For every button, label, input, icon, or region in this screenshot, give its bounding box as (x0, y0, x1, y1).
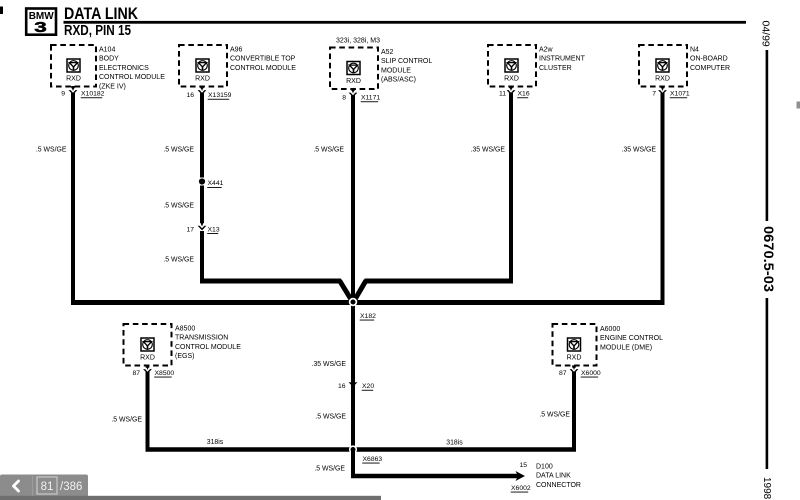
svg-text:A96: A96 (230, 47, 243, 54)
svg-text:.5 WS/GE: .5 WS/GE (313, 146, 344, 153)
sidebar line lower (766, 298, 769, 469)
wire from A104 down (71, 93, 75, 305)
svg-text:81: 81 (41, 481, 54, 493)
connector arrow X10182 (69, 86, 78, 94)
svg-text:TRANSMISSION: TRANSMISSION (175, 335, 228, 342)
module box N4 (639, 45, 687, 87)
svg-text:DATA LINK: DATA LINK (64, 5, 138, 23)
sidebar line upper (766, 50, 769, 221)
svg-text:CONNECTOR: CONNECTOR (536, 482, 581, 489)
wire from A8500 down (146, 372, 150, 452)
svg-text:A6000: A6000 (600, 326, 620, 333)
wire from A52 down through X182 to X6863 (351, 96, 355, 450)
module box A2w (488, 45, 536, 87)
svg-text:BODY: BODY (99, 56, 119, 63)
svg-text:RXD: RXD (140, 355, 155, 362)
svg-text:MODULE: MODULE (381, 67, 411, 74)
svg-text:RXD: RXD (66, 76, 81, 83)
svg-text:X6863: X6863 (363, 456, 383, 463)
svg-text:A2w: A2w (539, 47, 554, 54)
svg-text:15: 15 (519, 462, 527, 469)
wire X13 down to upper bus (200, 231, 204, 284)
bottom wire to D100 (351, 474, 518, 479)
svg-text:04/99: 04/99 (759, 21, 771, 47)
connector arrow X13159 (198, 86, 207, 94)
svg-text:COMPUTER: COMPUTER (690, 65, 730, 72)
module box A96 (179, 45, 227, 87)
svg-text:.5 WS/GE: .5 WS/GE (111, 416, 142, 423)
svg-text:(EGS): (EGS) (175, 353, 194, 360)
wire from A96 down to X441 (200, 93, 204, 178)
svg-text:(ZKE IV): (ZKE IV) (99, 83, 126, 90)
svg-text:X13: X13 (208, 226, 220, 233)
icon A52 (347, 62, 360, 75)
svg-text:MODULE (DME): MODULE (DME) (600, 344, 652, 351)
sidebar gray square (797, 102, 800, 109)
wire from A2w down to upper bus (509, 93, 513, 284)
svg-text:7: 7 (652, 90, 656, 97)
upper bus right segment (diagonal to A2w) (365, 279, 514, 284)
module box A8500 (124, 324, 172, 366)
pin stub A96 (200, 86, 204, 88)
svg-text:318is: 318is (446, 439, 463, 446)
module box A52 (330, 48, 378, 90)
svg-text:.5 WS/GE: .5 WS/GE (163, 146, 194, 153)
svg-text:A8500: A8500 (175, 326, 195, 333)
svg-text:17: 17 (186, 226, 194, 233)
junction X6863 (350, 446, 357, 453)
svg-text:A104: A104 (99, 47, 115, 54)
svg-text:X10182: X10182 (81, 91, 105, 98)
wire X441 to X13 (200, 186, 204, 224)
BMW 3 logo (26, 9, 56, 36)
pin stub A52 (351, 89, 355, 91)
main bus (A104 to N4) (71, 300, 665, 305)
svg-text:.5 WS/GE: .5 WS/GE (314, 465, 345, 472)
svg-text:.35 WS/GE: .35 WS/GE (622, 146, 657, 153)
svg-text:X13159: X13159 (208, 92, 232, 99)
svg-text:3: 3 (34, 20, 46, 36)
svg-text:D100: D100 (536, 464, 553, 471)
icon A8500 (141, 338, 154, 351)
svg-text:X6000: X6000 (581, 370, 601, 377)
wire X6863 down (351, 450, 355, 479)
svg-text:RXD: RXD (504, 76, 519, 83)
svg-text:RXD, PIN 15: RXD, PIN 15 (64, 22, 131, 39)
icon A2w (505, 59, 518, 72)
svg-text:0670.5-03: 0670.5-03 (761, 226, 777, 292)
junction X182 (350, 299, 357, 306)
svg-text:16: 16 (338, 383, 346, 390)
svg-text:X441: X441 (208, 180, 224, 187)
svg-text:.5 WS/GE: .5 WS/GE (163, 202, 194, 209)
icon N4 (656, 59, 669, 72)
connector arrow X1071 (658, 86, 667, 94)
svg-text:87: 87 (132, 370, 140, 377)
pin stub A6000 (572, 366, 576, 368)
svg-text:X16: X16 (518, 91, 530, 98)
page edge mark (top-left) (0, 7, 3, 15)
connector arrow X20 (349, 379, 358, 387)
bottom progress strip (0, 496, 381, 500)
lower horizontal wire (A8500 to A6000) (146, 447, 577, 452)
svg-text:X182: X182 (360, 313, 376, 320)
svg-text:CONVERTIBLE TOP: CONVERTIBLE TOP (230, 56, 296, 63)
connector arrow X1171 (349, 89, 358, 97)
arrow into D100 (516, 471, 526, 481)
svg-text:323i, 328i, M3: 323i, 328i, M3 (336, 38, 380, 45)
icon A104 (67, 59, 80, 72)
title rule (64, 21, 747, 24)
svg-text:X1071: X1071 (670, 91, 690, 98)
svg-text:.5 WS/GE: .5 WS/GE (36, 146, 67, 153)
svg-text:87: 87 (559, 370, 567, 377)
svg-text:CONTROL MODULE: CONTROL MODULE (175, 344, 241, 351)
icon A96 (196, 59, 209, 72)
diagonal right into X182 (354, 281, 366, 302)
icon A6000 (568, 338, 581, 351)
module box A6000 (553, 324, 597, 366)
connector arrow X16 (507, 86, 516, 94)
svg-text:16: 16 (186, 92, 194, 99)
toolbar bar (0, 475, 88, 498)
pin stub N4 (661, 86, 665, 88)
svg-text:X20: X20 (362, 383, 374, 390)
svg-text:CONTROL MODULE: CONTROL MODULE (230, 65, 296, 72)
module box A104 (51, 45, 96, 87)
wire from N4 down to main bus (661, 93, 665, 305)
svg-text:RXD: RXD (567, 355, 582, 362)
svg-text:.5 WS/GE: .5 WS/GE (163, 256, 194, 263)
connector arrow X6000 (570, 365, 579, 373)
svg-text:11: 11 (499, 90, 506, 97)
svg-text:DATA LINK: DATA LINK (536, 473, 571, 480)
toolbar back chevron (14, 481, 19, 491)
svg-text:SLIP CONTROL: SLIP CONTROL (381, 58, 432, 65)
svg-text:INSTRUMENT: INSTRUMENT (539, 56, 586, 63)
toolbar page box (37, 477, 57, 494)
svg-text:ELECTRONICS: ELECTRONICS (99, 65, 149, 72)
svg-text:CLUSTER: CLUSTER (539, 65, 572, 72)
svg-text:RXD: RXD (346, 78, 361, 85)
connector arrow X13 (198, 222, 207, 230)
svg-text:8: 8 (342, 95, 346, 102)
svg-text:X6002: X6002 (511, 485, 531, 492)
wire from A6000 down (572, 372, 576, 452)
svg-text:/386: /386 (60, 481, 82, 493)
pin stub A104 (71, 86, 75, 88)
svg-text:ENGINE CONTROL: ENGINE CONTROL (600, 335, 663, 342)
toolbar separator (32, 476, 34, 496)
upper bus left segment (A96 to diagonal) (200, 279, 341, 284)
svg-text:318is: 318is (207, 439, 224, 446)
svg-text:X8500: X8500 (155, 370, 175, 377)
svg-text:.35 WS/GE: .35 WS/GE (312, 361, 347, 368)
svg-text:ON-BOARD: ON-BOARD (690, 56, 728, 63)
svg-text:.5 WS/GE: .5 WS/GE (315, 413, 346, 420)
svg-text:.35 WS/GE: .35 WS/GE (471, 146, 506, 153)
svg-text:X1171: X1171 (361, 95, 380, 102)
svg-text:(ABS/ASC): (ABS/ASC) (381, 77, 416, 84)
pin stub A8500 (146, 366, 150, 368)
svg-text:N4: N4 (690, 47, 699, 54)
svg-text:RXD: RXD (195, 76, 210, 83)
svg-text:RXD: RXD (655, 76, 670, 83)
junction X441 (199, 178, 205, 184)
diagonal left into X182 (340, 281, 353, 302)
svg-text:9: 9 (61, 90, 65, 97)
connector arrow X8500 (143, 365, 152, 373)
svg-text:CONTROL MODULE: CONTROL MODULE (99, 74, 165, 81)
svg-text:A52: A52 (381, 49, 394, 56)
svg-text:1998: 1998 (761, 477, 772, 500)
svg-text:.5 WS/GE: .5 WS/GE (539, 411, 570, 418)
pin stub A2w (509, 86, 513, 88)
